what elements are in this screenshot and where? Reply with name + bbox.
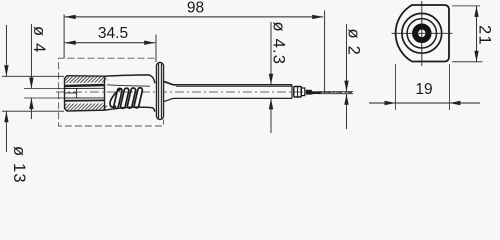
collar flange [157, 63, 164, 120]
dimension 34.5 [65, 25, 156, 62]
tip holder (black) [306, 90, 312, 95]
tip ferrule / nut [294, 87, 305, 98]
dimension o13 (grip) [2, 25, 64, 184]
dimension 21 [452, 6, 494, 62]
dimension 19 [369, 64, 480, 110]
svg-text:34.5: 34.5 [98, 25, 128, 42]
svg-text:19: 19 [415, 81, 432, 98]
centerline [56, 91, 352, 93]
svg-text:ø 2: ø 2 [345, 29, 363, 56]
phantom outline (dashed rect) [59, 58, 164, 126]
front view crosshair vertical [421, 1, 423, 66]
knurl hatching top band [65, 76, 109, 83]
front view crosshair horizontal [392, 32, 453, 34]
handle mid section [105, 75, 155, 112]
knurl hatching bottom band [65, 103, 109, 110]
svg-text:98: 98 [187, 0, 204, 16]
svg-text:ø 4: ø 4 [30, 26, 48, 53]
svg-text:ø 13: ø 13 [10, 146, 28, 184]
grip ribs [110, 87, 143, 109]
dimension o4.3 (shaft) [269, 22, 288, 134]
dimension o2 (tip) [317, 24, 363, 129]
grip body (knurled sleeve) [65, 76, 105, 111]
front view black ring [415, 27, 429, 41]
front view center hole [419, 31, 424, 36]
dimension 98 [64, 0, 325, 93]
front view outline [396, 5, 449, 62]
centerline at tip [325, 92, 352, 94]
front view middle circle [407, 19, 436, 48]
needle tip [312, 91, 324, 94]
dimension o4 (bore) [24, 24, 64, 119]
front view outer circle [402, 13, 442, 53]
svg-text:21: 21 [476, 25, 494, 46]
svg-text:ø 4.3: ø 4.3 [270, 22, 288, 66]
shaft (o4.3 tube) [164, 82, 293, 102]
